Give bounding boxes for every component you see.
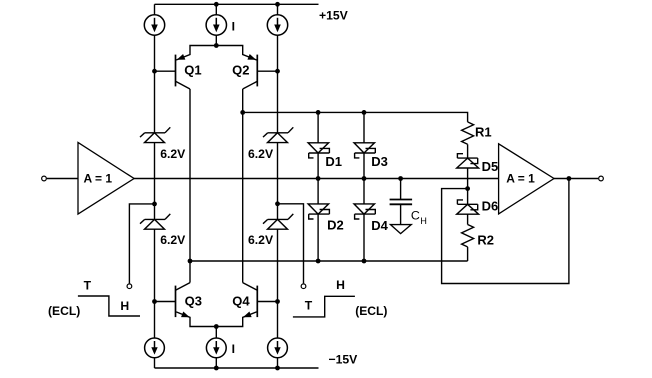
zener diode Z4 6.2V (lower right) (263, 214, 293, 229)
svg-text:D6: D6 (482, 199, 499, 214)
svg-text:I: I (232, 342, 235, 356)
svg-text:C: C (411, 209, 420, 223)
wire: I2 to emitters of Q1/Q2 (215, 35, 217, 46)
ECL track-hold waveform (left) (78, 296, 140, 316)
op-amp U2 (output buffer A = 1) (499, 144, 554, 214)
node: Q3 base junction (152, 299, 157, 304)
svg-text:D4: D4 (371, 218, 388, 233)
op-amp U1 (input buffer A = 1) (78, 143, 134, 215)
wire: emitter node to I5 (215, 327, 217, 339)
svg-text:6.2V: 6.2V (160, 147, 186, 161)
node: Q2 collector to upper bridge line (240, 110, 245, 115)
wire: D6 to R2 (467, 214, 469, 224)
output terminal (599, 176, 604, 181)
svg-text:H: H (336, 278, 345, 292)
svg-text:T: T (84, 278, 92, 292)
current source I5 (bottom middle) (206, 338, 226, 358)
node: D4 to lower bridge line (362, 259, 367, 264)
node: rail/I6 junction (275, 366, 280, 371)
wire: D3 to main line to D4 (363, 153, 365, 204)
wire: feedback loop from output to D5-D6 junction (442, 179, 569, 284)
wire: Z3 to Q3 base node (154, 229, 156, 338)
ECL track-hold waveform (right) (293, 296, 355, 317)
node: rail/I5 junction (214, 366, 219, 371)
node: feedback to D5-D6 junction (465, 186, 470, 191)
zener diode Z1 6.2V (upper left) (140, 127, 170, 142)
right T/H control terminal (301, 284, 306, 289)
svg-text:Q4: Q4 (232, 294, 250, 309)
node: D1 top junction (316, 110, 321, 115)
input terminal (42, 176, 47, 181)
wire: D3 top lead (363, 112, 365, 142)
wire: Q1/Q3 collector link (189, 89, 191, 283)
svg-text:Q2: Q2 (232, 62, 249, 77)
wire: R2 to lower bridge line (467, 247, 469, 261)
svg-text:(ECL): (ECL) (355, 304, 387, 318)
wire: I6 to -15V rail (277, 358, 279, 368)
node: hold capacitor junction (398, 176, 403, 181)
svg-text:A = 1: A = 1 (84, 172, 113, 186)
wire: capacitor to ground (400, 204, 402, 224)
wire: rail to I1 (154, 4, 156, 15)
node: Q1 base junction (152, 69, 157, 74)
+15V power rail (155, 3, 319, 5)
svg-text:D5: D5 (482, 159, 499, 174)
diode D6 (457, 200, 479, 214)
wire: lower bridge line (Q1/Q3 collectors to R2) (190, 260, 468, 262)
wire: rail to I3 (277, 4, 279, 15)
zener diode Z3 6.2V (lower left) (140, 214, 170, 229)
diode D5 (457, 154, 479, 168)
wire: I3 to Q2 base node and zener Z2 (277, 35, 279, 133)
wire: I1 to Q1 base node and zener Z1 (154, 35, 156, 133)
wire: Z1 to Z3 (154, 143, 156, 220)
node: left T/H pickoff (152, 202, 157, 207)
wire: Z2 to Z4 (277, 143, 279, 220)
node: rail/I3 junction (275, 2, 280, 7)
diode D1 (308, 143, 329, 158)
wire: D5 across main line to D6 (467, 168, 469, 204)
node: rail/I2 junction (214, 2, 219, 7)
svg-text:6.2V: 6.2V (248, 233, 274, 247)
zener diode Z2 6.2V (upper right) (263, 127, 293, 142)
current source I3 (top right) (267, 15, 287, 35)
wire: I5 to -15V rail (215, 358, 217, 368)
svg-text:H: H (120, 299, 129, 313)
wire: right T/H control stub (278, 204, 304, 284)
svg-text:−15V: −15V (329, 352, 359, 366)
svg-text:Q3: Q3 (185, 294, 202, 309)
node: D3-D4 junction on main line (362, 176, 367, 181)
svg-text:+15V: +15V (319, 9, 349, 23)
node: D3 top junction (362, 110, 367, 115)
svg-text:6.2V: 6.2V (160, 233, 186, 247)
left T/H control terminal (127, 284, 132, 289)
wire: D1 to main line to D2 (317, 153, 319, 204)
current source I2 (top middle) (206, 15, 226, 35)
node: D2 to lower bridge line (316, 259, 321, 264)
resistor R1 (462, 122, 474, 144)
-15V power rail (155, 367, 319, 369)
current source I6 (bottom right) (268, 338, 288, 358)
svg-text:R2: R2 (477, 232, 494, 247)
node: Q4 base junction (275, 299, 280, 304)
wire: Q2/Q4 collector link (242, 89, 244, 283)
wire: D2 bottom lead (317, 214, 319, 261)
ground (391, 225, 412, 234)
wire: D4 bottom lead (363, 214, 365, 261)
svg-text:R1: R1 (475, 125, 492, 140)
node: output/feedback junction (567, 176, 572, 181)
wire: Z4 to Q4 base node (277, 229, 279, 338)
transistor Q1 (155, 46, 217, 90)
transistor Q2 (216, 46, 277, 90)
node: Q2 base junction (275, 69, 280, 74)
svg-text:T: T (305, 298, 313, 312)
wire: rail to I2 (215, 4, 217, 15)
wire: left T/H control stub (129, 204, 154, 284)
wire: D1 top lead (317, 112, 319, 142)
current source I4 (bottom left) (145, 338, 165, 358)
current source I1 (top left) (144, 15, 164, 35)
svg-text:I: I (232, 19, 235, 33)
wire: input to buffer U1 (47, 178, 78, 180)
svg-text:A = 1: A = 1 (506, 172, 535, 186)
wire: U2 output (554, 178, 598, 180)
svg-text:H: H (420, 216, 427, 226)
node: right T/H pickoff (275, 201, 280, 206)
wire: main line to hold capacitor (400, 179, 402, 200)
wire: main signal line (U1 output to U2 input) (134, 178, 499, 180)
svg-text:D2: D2 (327, 217, 344, 232)
svg-text:6.2V: 6.2V (248, 147, 274, 161)
svg-text:Q1: Q1 (184, 62, 201, 77)
transistor Q4 (216, 283, 277, 327)
node: D1-D2 junction on main line (316, 176, 321, 181)
node: Q1-Q3 collectors to lower bridge line (188, 259, 193, 264)
node: Q1/Q2 emitter junction (214, 43, 219, 48)
resistor R2 (462, 225, 474, 247)
diode D2 (308, 204, 329, 219)
wire: I4 to -15V rail (154, 358, 156, 368)
diode D4 (354, 204, 375, 219)
wire: upper bridge line (Q2 collector to R1) (243, 112, 468, 122)
svg-text:D1: D1 (325, 154, 342, 169)
transistor Q3 (155, 283, 217, 327)
node: Q3/Q4 emitter junction (214, 324, 219, 329)
diode D3 (354, 143, 375, 158)
svg-text:D3: D3 (371, 154, 388, 169)
svg-text:(ECL): (ECL) (48, 304, 80, 318)
wire: R1 to D5 (467, 144, 469, 158)
capacitor CH (390, 200, 413, 205)
